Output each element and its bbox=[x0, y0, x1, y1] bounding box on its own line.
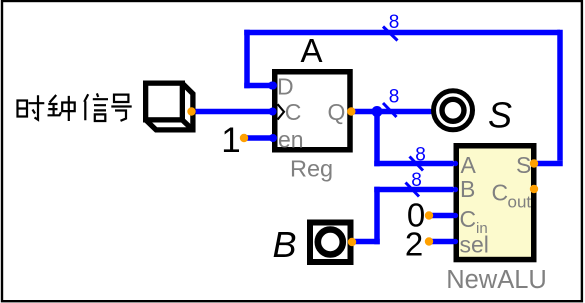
bus width slash A wire bbox=[410, 157, 424, 171]
label S (italic) bbox=[488, 95, 512, 136]
svg-text:8: 8 bbox=[415, 145, 426, 166]
ALU pin label Cin bbox=[460, 206, 488, 237]
label A above register bbox=[300, 32, 322, 69]
Reg pin label C bbox=[285, 99, 302, 125]
svg-text:C: C bbox=[492, 180, 509, 206]
ALU NewALU box bbox=[456, 146, 534, 260]
component name NewALU bbox=[446, 266, 547, 294]
wire: B vertical riser bbox=[374, 187, 380, 245]
bus width label 8 B wire bbox=[411, 170, 422, 191]
svg-text:8: 8 bbox=[389, 87, 400, 108]
wire: clock button to Reg C input bbox=[194, 109, 274, 115]
svg-text:A: A bbox=[461, 152, 477, 178]
ALU pin label S bbox=[516, 152, 531, 178]
input pin B (square with circle) bbox=[310, 223, 351, 263]
Reg pin label en bbox=[278, 127, 304, 153]
output pin S (double circle) bbox=[434, 91, 473, 130]
constant 0 value label bbox=[407, 197, 425, 234]
wire: constant 0 to ALU Cin bbox=[429, 213, 453, 219]
component name Reg bbox=[290, 156, 333, 182]
ALU pin label sel bbox=[460, 232, 489, 258]
wire: right vertical feedback bbox=[557, 30, 563, 161]
svg-text:A: A bbox=[300, 32, 322, 69]
svg-text:8: 8 bbox=[411, 170, 422, 191]
constant 1 output port dot bbox=[240, 134, 248, 142]
wire: junction down branch bbox=[374, 112, 380, 167]
svg-text:B: B bbox=[460, 176, 475, 202]
ALU Cout output port dot bbox=[530, 185, 538, 193]
ALU pin label Cout bbox=[492, 180, 532, 212]
constant 0 output port dot bbox=[425, 211, 433, 219]
svg-text:Reg: Reg bbox=[290, 156, 333, 182]
svg-text:8: 8 bbox=[389, 12, 400, 33]
wire: top horizontal feedback bus bbox=[244, 30, 560, 36]
wire: into ALU A input bbox=[374, 161, 453, 167]
constant 2 output port dot bbox=[425, 237, 433, 245]
node: wire end cap at Reg en input bbox=[269, 82, 277, 143]
bus width label 8 Q wire bbox=[389, 87, 400, 108]
svg-text:out: out bbox=[508, 193, 532, 212]
ALU S output port dot bbox=[530, 159, 538, 167]
svg-text:sel: sel bbox=[460, 232, 489, 258]
bus width slash B wire bbox=[406, 183, 420, 197]
register Reg bbox=[275, 72, 350, 150]
ALU pin label A bbox=[461, 152, 477, 178]
constant 2 value label bbox=[405, 226, 423, 263]
svg-text:C: C bbox=[285, 99, 302, 125]
wire: into Reg D input bbox=[244, 82, 276, 90]
wire: junction to output pin S bbox=[377, 109, 430, 115]
ALU pin label B bbox=[460, 176, 475, 202]
bus width label 8 top wire bbox=[389, 12, 400, 33]
wire: B pin to corner bbox=[352, 239, 380, 245]
svg-text:B: B bbox=[272, 224, 296, 265]
Reg pin label D bbox=[277, 74, 294, 100]
label B (italic) bbox=[272, 224, 296, 265]
svg-text:S: S bbox=[516, 152, 531, 178]
label 时钟信号 (clock signal) hand-drawn glyphs bbox=[18, 93, 132, 121]
svg-text:en: en bbox=[278, 127, 304, 153]
svg-text:Q: Q bbox=[328, 99, 346, 125]
node: junction at Q bbox=[372, 106, 383, 117]
clock button output port dot bbox=[187, 107, 195, 115]
Reg Q output port dot bbox=[347, 107, 355, 115]
svg-text:1: 1 bbox=[221, 121, 240, 160]
B pin output port dot bbox=[348, 238, 356, 246]
bus width slash top wire bbox=[383, 27, 398, 41]
wire: left vertical feedback bbox=[244, 30, 250, 89]
svg-text:C: C bbox=[460, 206, 477, 232]
clock button (时钟信号) bbox=[146, 83, 193, 130]
Reg pin label Q bbox=[328, 99, 346, 125]
svg-text:NewALU: NewALU bbox=[446, 266, 547, 294]
bus width slash Q wire bbox=[383, 103, 397, 117]
wire: constant 2 to ALU sel bbox=[429, 239, 453, 245]
svg-text:S: S bbox=[488, 95, 512, 136]
constant 1 value label bbox=[221, 121, 240, 160]
svg-text:2: 2 bbox=[405, 226, 423, 263]
bus width label 8 A wire bbox=[415, 145, 426, 166]
Reg clock chevron bbox=[269, 104, 284, 119]
node: wire end caps at ALU inputs bbox=[453, 161, 459, 245]
svg-text:D: D bbox=[277, 74, 294, 100]
wire: constant 1 to Reg en input bbox=[244, 135, 274, 141]
wire: Reg Q output to junction bbox=[351, 109, 377, 115]
wire: into ALU B input bbox=[374, 187, 453, 193]
wire: ALU S output to right corner bbox=[534, 161, 563, 167]
